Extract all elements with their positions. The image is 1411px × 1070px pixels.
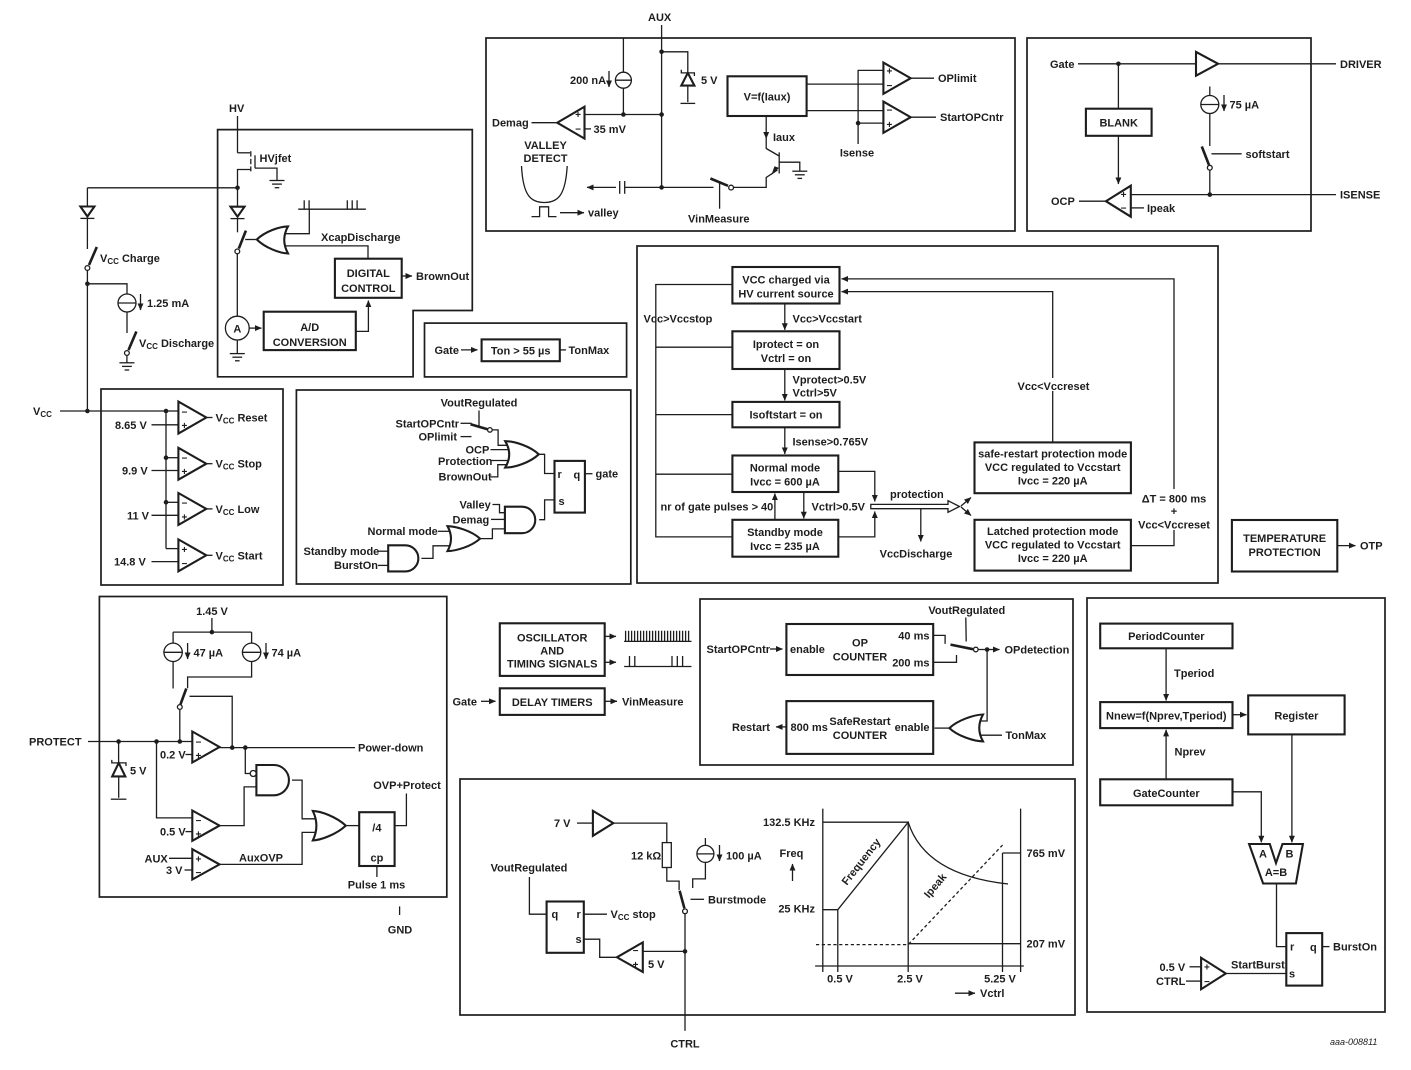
svg-text:Vctrl>5V: Vctrl>5V — [793, 388, 838, 400]
wire 200 ms contact — [933, 655, 956, 662]
wire rail stub to Isoftstart box — [656, 414, 733, 416]
box DELAY TIMERS — [500, 688, 605, 715]
ammeter A — [225, 316, 249, 340]
node junction switch pole — [178, 739, 183, 744]
svg-text:47 µA: 47 µA — [194, 647, 224, 659]
svg-text:35 mV: 35 mV — [594, 124, 627, 136]
svg-text:1.45 V: 1.45 V — [196, 606, 228, 618]
svg-text:−: − — [182, 454, 188, 465]
svg-text:11 V: 11 V — [127, 510, 150, 522]
svg-text:Normal mode: Normal mode — [368, 526, 438, 538]
svg-text:+: + — [633, 960, 639, 971]
node junction gate/blank — [1116, 62, 1121, 67]
fat arrow protection — [871, 501, 960, 513]
box Isoftstart — [732, 402, 839, 427]
comparator VCC Stop — [178, 448, 206, 480]
box Normal mode — [732, 456, 838, 493]
svg-text:Vctrl = on: Vctrl = on — [761, 353, 812, 365]
comparator AuxOVP — [192, 849, 219, 879]
wire 7V stub — [577, 822, 593, 824]
svg-text:OPdetection: OPdetection — [1005, 645, 1070, 657]
wire arrow VinMeasure out — [605, 700, 617, 702]
svg-text:Burstmode: Burstmode — [708, 894, 766, 906]
svg-text:valley: valley — [588, 208, 619, 220]
svg-text:VinMeasure: VinMeasure — [622, 696, 684, 708]
and-gate U-set — [505, 507, 535, 534]
arrow 1.25 mA direction — [140, 294, 142, 310]
flip-flop FF-burst — [1286, 933, 1322, 986]
svg-text:+: + — [196, 855, 202, 866]
svg-text:safe-restart protection mode: safe-restart protection mode — [978, 449, 1127, 461]
ground plate under zener — [111, 798, 127, 800]
wire OCP output — [1079, 200, 1106, 202]
svg-text:Gate: Gate — [1050, 59, 1074, 71]
wire 1.45V rail — [173, 631, 252, 633]
svg-text:9.9 V: 9.9 V — [122, 466, 148, 478]
switch Burstmode — [680, 891, 688, 914]
svg-text:StartOPCntr: StartOPCntr — [396, 418, 460, 430]
svg-text:132.5 KHz: 132.5 KHz — [763, 817, 815, 829]
box VCC comparators — [101, 389, 283, 585]
wire Demag to AND — [491, 518, 505, 520]
graph right axis — [1020, 809, 1022, 972]
svg-text:Register: Register — [1274, 711, 1319, 723]
wire arrow B1 to B2 — [784, 304, 786, 330]
svg-text:AUX: AUX — [648, 12, 672, 24]
svg-text:+: + — [575, 110, 581, 121]
svg-text:800 ms: 800 ms — [791, 722, 828, 734]
wire FF q to BurstOn — [1322, 946, 1329, 948]
box DIGITAL CONTROL — [335, 259, 402, 298]
svg-text:40 ms: 40 ms — [898, 630, 929, 642]
svg-text:XcapDischarge: XcapDischarge — [321, 232, 400, 244]
wire arrow comb2 — [605, 661, 616, 663]
comparator 0.5V — [192, 811, 219, 841]
svg-text:Gate: Gate — [453, 696, 477, 708]
svg-text:HV current source: HV current source — [738, 289, 833, 301]
svg-text:AND: AND — [540, 646, 564, 658]
arrow freq up — [792, 864, 794, 881]
svg-text:cp: cp — [370, 853, 383, 865]
wire BurstOn to AND2 — [378, 564, 388, 566]
wire arrow Standby to Normal — [774, 494, 776, 520]
svg-text:A: A — [233, 324, 241, 336]
svg-text:PeriodCounter: PeriodCounter — [1128, 631, 1205, 643]
box op counter block — [700, 599, 1073, 765]
svg-text:Standby mode: Standby mode — [747, 527, 823, 539]
svg-text:s: s — [1289, 969, 1295, 981]
wire StartOPCntr output — [911, 116, 936, 118]
wire AND2 to OR2 input — [421, 546, 450, 559]
wire NAND output to OR — [292, 780, 317, 819]
zener diode 5V — [681, 70, 694, 86]
svg-text:−: − — [196, 868, 202, 879]
svg-text:VCC charged via: VCC charged via — [742, 275, 830, 287]
switch VCC Charge — [85, 247, 97, 270]
svg-text:Vcc>Vccstart: Vcc>Vccstart — [793, 314, 863, 326]
svg-text:Protection: Protection — [438, 456, 493, 468]
comparator 5V vcc-stop (points left) — [617, 942, 643, 972]
wire Iaux arrow from V=f box — [765, 117, 767, 139]
wire junction down to OR3 — [980, 650, 988, 722]
ground plate under zener — [681, 102, 696, 104]
svg-text:Iprotect = on: Iprotect = on — [753, 339, 820, 351]
arrow Vctrl — [955, 992, 975, 994]
buffer U-7V — [593, 811, 613, 836]
node junction on HV source line — [235, 186, 240, 191]
wire A/D to DIGITAL CONTROL — [356, 301, 369, 332]
svg-text:5 V: 5 V — [701, 75, 718, 87]
wire gate arrow — [461, 349, 478, 351]
svg-text:StartOPCntr: StartOPCntr — [940, 112, 1004, 124]
box A/D CONVERSION — [264, 312, 356, 350]
svg-text:−: − — [575, 124, 581, 135]
svg-text:softstart: softstart — [1246, 149, 1290, 161]
wire HV down into box — [237, 116, 239, 153]
svg-text:Vcc>Vccstop: Vcc>Vccstop — [644, 314, 713, 326]
buffer U-driver — [1196, 52, 1218, 76]
box gate logic — [296, 390, 630, 584]
svg-text:Ivcc = 235 µA: Ivcc = 235 µA — [750, 541, 820, 553]
current source 100 uA — [693, 838, 714, 888]
wire Normal mode to protection arrow — [838, 471, 875, 501]
wire GND stub — [399, 906, 401, 915]
svg-text:Power-down: Power-down — [358, 743, 424, 755]
node junction on ISENSE — [1208, 192, 1213, 197]
svg-text:Nprev: Nprev — [1175, 747, 1207, 759]
wire 9.9V to comp2 — [152, 470, 179, 472]
wire PROTECT input — [88, 741, 192, 743]
label dT = 800 ms + Vcc<Vccreset — [1138, 489, 1210, 531]
comparator OPlimit — [883, 63, 910, 94]
svg-text:r: r — [577, 909, 582, 921]
box TEMPERATURE PROTECTION — [1232, 520, 1337, 572]
svg-text:8.65 V: 8.65 V — [115, 420, 147, 432]
comparator VCC Low — [178, 493, 206, 525]
curve Ipeak dashed — [816, 844, 1004, 945]
svg-text:BLANK: BLANK — [1099, 118, 1138, 130]
wire AUX vertical — [661, 25, 663, 187]
wire comp3 output — [206, 508, 212, 510]
wire 11V to comp3 — [152, 514, 179, 516]
svg-text:−: − — [1121, 203, 1127, 214]
box HV block outline — [218, 130, 473, 377]
svg-text:q: q — [552, 909, 559, 921]
svg-text:COUNTER: COUNTER — [833, 652, 887, 664]
svg-text:VoutRegulated: VoutRegulated — [928, 605, 1005, 617]
wire gate to buffer — [1078, 63, 1196, 65]
wire Isense stub down — [857, 123, 859, 144]
box VCC charged via HV current source — [732, 267, 839, 304]
box Standby mode — [732, 520, 838, 557]
svg-text:enable: enable — [790, 644, 825, 656]
ground under VCC Discharge — [119, 363, 134, 370]
wire Demag + input rail — [585, 114, 662, 116]
capacitor C1 — [620, 181, 662, 194]
svg-text:200 ms: 200 ms — [892, 657, 929, 669]
svg-text:Freq: Freq — [780, 848, 804, 860]
svg-text:VCC Start: VCC Start — [216, 550, 263, 563]
svg-text:HVjfet: HVjfet — [260, 153, 292, 165]
svg-text:nr of gate pulses > 40: nr of gate pulses > 40 — [661, 502, 774, 514]
pulse symbol valley — [532, 207, 557, 217]
node junction bus comp3 — [164, 500, 169, 505]
svg-text:25 KHz: 25 KHz — [778, 903, 815, 915]
waveform comb pulses — [298, 200, 366, 209]
and-gate U-standby — [388, 545, 418, 571]
svg-text:−: − — [182, 559, 188, 570]
svg-text:BurstOn: BurstOn — [334, 560, 378, 572]
svg-text:VCC Stop: VCC Stop — [216, 459, 263, 472]
svg-text:VinMeasure: VinMeasure — [688, 214, 750, 226]
wire bus to comp2 minus — [166, 457, 178, 459]
graph hline 207mV — [908, 943, 1020, 945]
wire VCC bus vertical — [165, 411, 167, 549]
wire Demag output — [532, 122, 558, 124]
waveform sparse pulses — [624, 656, 691, 667]
wire left branch down to diode — [86, 188, 88, 207]
svg-text:OVP+Protect: OVP+Protect — [373, 780, 441, 792]
wire 0.5V comp output to NAND — [220, 787, 257, 826]
svg-text:+: + — [196, 751, 202, 762]
transistor Q1 — [766, 149, 800, 176]
svg-text:Nnew=f(Nprev,Tperiod): Nnew=f(Nprev,Tperiod) — [1106, 710, 1227, 722]
wire BrownOut to OR — [491, 465, 509, 477]
comparator VCC Start — [178, 539, 206, 571]
svg-text:Isense>0.765V: Isense>0.765V — [793, 437, 869, 449]
svg-text:ΔT = 800 ms: ΔT = 800 ms — [1142, 494, 1206, 506]
switch VCC Discharge — [125, 332, 137, 356]
svg-text:VCC Low: VCC Low — [216, 504, 260, 517]
wire OR to FF r — [539, 454, 555, 473]
svg-text:+: + — [182, 467, 188, 478]
wire horizontal rail y=187.8 — [87, 187, 237, 189]
box Ton > 55 us — [482, 339, 560, 361]
wire to zener — [662, 52, 688, 73]
svg-text:r: r — [558, 469, 563, 481]
comparator Demag (points left) — [557, 107, 584, 139]
box BLANK — [1086, 109, 1152, 136]
svg-text:OCP: OCP — [1051, 196, 1075, 208]
wire OVP+Protect output — [395, 794, 407, 826]
wire 0.5V stub — [186, 831, 193, 833]
svg-text:Valley: Valley — [460, 499, 492, 511]
svg-text:−: − — [633, 946, 639, 957]
svg-text:Ton > 55 µs: Ton > 55 µs — [491, 345, 551, 357]
box OP COUNTER — [786, 624, 933, 675]
node junction bus comp2 — [164, 455, 169, 460]
node junction NAND branch — [243, 745, 248, 750]
svg-text:Gate: Gate — [435, 345, 459, 357]
svg-text:COUNTER: COUNTER — [833, 730, 887, 742]
wire 74uA to switch contact — [188, 662, 252, 689]
svg-text:DIGITAL: DIGITAL — [347, 268, 390, 280]
wire switch to ISENSE line — [1209, 170, 1211, 195]
svg-text:5.25 V: 5.25 V — [984, 974, 1016, 986]
svg-text:−: − — [887, 81, 893, 92]
svg-text:+: + — [196, 829, 202, 840]
svg-text:Tperiod: Tperiod — [1174, 668, 1214, 680]
wire diode to switch — [86, 218, 88, 249]
svg-text:0.2 V: 0.2 V — [160, 750, 186, 762]
svg-text:+: + — [182, 512, 188, 523]
wire OCP to OR — [491, 449, 510, 451]
node junction bus top — [164, 409, 169, 414]
wire diode to switch contact — [237, 219, 239, 233]
arrow 200 nA direction — [608, 71, 610, 87]
wire 40 ms contact — [933, 635, 945, 644]
wire zener branch down — [118, 742, 120, 763]
box AUX block — [486, 38, 1015, 231]
svg-text:VoutRegulated: VoutRegulated — [491, 863, 568, 875]
switch VinMeasure — [710, 179, 733, 209]
svg-text:−: − — [887, 106, 893, 117]
svg-text:VCC regulated to Vccstart: VCC regulated to Vccstart — [985, 462, 1121, 474]
svg-text:OPlimit: OPlimit — [938, 73, 977, 85]
wire 8.65V to comp1 — [152, 424, 179, 426]
svg-text:+: + — [182, 421, 188, 432]
svg-text:Vprotect>0.5V: Vprotect>0.5V — [793, 375, 867, 387]
svg-text:VCC stop: VCC stop — [611, 909, 656, 922]
svg-text:ISENSE: ISENSE — [1340, 190, 1380, 202]
svg-text:+: + — [1204, 963, 1210, 974]
wire OPlimit output — [911, 77, 934, 79]
wire latched return rail — [842, 279, 1175, 546]
wire CTRL stub — [1186, 980, 1201, 982]
wire left return rail — [656, 285, 733, 537]
wire 35 mV stub — [585, 128, 592, 130]
svg-text:OPlimit: OPlimit — [419, 432, 458, 444]
svg-text:OCP: OCP — [466, 444, 490, 456]
switch hysteresis — [177, 689, 186, 710]
svg-text:Ivcc = 600 µA: Ivcc = 600 µA — [750, 477, 820, 489]
or-gate U-xcap pointing left — [257, 226, 288, 253]
wire safe-restart up rail — [842, 292, 1053, 443]
wire switch pole down — [179, 709, 181, 741]
wire OR to /4 box — [346, 825, 359, 827]
svg-text:q: q — [574, 470, 581, 482]
svg-text:Isense: Isense — [840, 147, 874, 159]
arrow 47 uA direction — [187, 643, 189, 659]
svg-text:Normal mode: Normal mode — [750, 463, 820, 475]
svg-text:DRIVER: DRIVER — [1340, 59, 1382, 71]
svg-text:Ivcc = 220 µA: Ivcc = 220 µA — [1018, 553, 1088, 565]
graph bottom axis — [815, 965, 1024, 967]
svg-text:s: s — [559, 496, 565, 508]
box ctrl block — [460, 779, 1075, 1015]
svg-text:BrownOut: BrownOut — [416, 271, 469, 283]
current source 1.25 mA — [118, 294, 136, 312]
svg-text:A: A — [1259, 849, 1267, 861]
wire OPlimit stub — [461, 436, 472, 438]
svg-text:VccDischarge: VccDischarge — [880, 549, 953, 561]
box Latched protection mode — [975, 520, 1131, 571]
wire AND to FF s — [539, 500, 554, 520]
or-gate U-reset — [505, 441, 539, 467]
wire gate junction to BLANK — [1117, 64, 1119, 109]
wire fork to latched — [961, 507, 971, 516]
wire switch down to VCC rail — [86, 270, 88, 411]
comparator OCP (points left) — [1106, 186, 1131, 217]
svg-text:3 V: 3 V — [166, 865, 183, 877]
diode D2 — [231, 207, 245, 219]
wire Ipeak stub — [1131, 207, 1144, 209]
svg-text:PROTECT: PROTECT — [29, 737, 82, 749]
wire switch control from comparator output — [190, 696, 233, 747]
svg-text:OTP: OTP — [1360, 541, 1383, 553]
wire switch to ammeter — [236, 254, 238, 316]
wire 0.5V branch — [157, 742, 193, 818]
wire arrow Restart — [776, 726, 786, 728]
switch XcapDischarge — [235, 231, 246, 254]
svg-text:Vcc<Vccreset: Vcc<Vccreset — [1018, 381, 1090, 393]
wire gate arrow to delay timers — [481, 700, 496, 702]
switch OP detection select — [951, 645, 979, 652]
wire arrow Tperiod — [1165, 648, 1167, 700]
wire buffer to DRIVER pin — [1218, 63, 1336, 65]
wire VoutRegulated control — [478, 411, 480, 427]
svg-text:gate: gate — [596, 469, 619, 481]
svg-text:SafeRestart: SafeRestart — [829, 716, 890, 728]
wire source to switch — [126, 312, 128, 333]
box Register — [1248, 695, 1344, 734]
svg-text:GateCounter: GateCounter — [1133, 788, 1200, 800]
box state machine — [637, 246, 1218, 583]
svg-text:200 nA: 200 nA — [570, 75, 606, 87]
arrow to valley label — [560, 212, 584, 214]
label Vcc<Vccreset (on rail) — [1014, 378, 1092, 393]
wire switch to transistor emitter — [734, 170, 778, 187]
wire BrownOut output arrow — [402, 275, 412, 277]
wire Standby to AND2 — [378, 550, 388, 552]
svg-text:Restart: Restart — [732, 722, 770, 734]
wire arrow Nnew to Register — [1233, 714, 1247, 716]
current source 74 uA — [242, 632, 260, 661]
node junction AUX on rail — [659, 112, 664, 117]
or-gate U-mode — [448, 526, 481, 551]
wire StartBurst to FF s — [1226, 973, 1287, 975]
svg-text:PROTECTION: PROTECTION — [1249, 547, 1321, 559]
wire Protection to OR — [491, 460, 510, 462]
wire bus to comp4 plus — [166, 548, 178, 550]
wire arrow GateCounter to A — [1233, 792, 1262, 843]
arrow 75 uA direction — [1223, 95, 1225, 111]
wire Normal mode to OR2 — [438, 530, 451, 532]
wire rail stub to Normal mode box — [656, 473, 733, 475]
or-gate U-restart (points left) — [949, 715, 983, 742]
node junction 200nA on rail — [621, 112, 626, 117]
wire softstart stub — [1212, 153, 1242, 155]
svg-text:BrownOut: BrownOut — [439, 472, 492, 484]
wire NAND bubble branch — [245, 748, 250, 774]
svg-text:7 V: 7 V — [554, 818, 571, 830]
svg-text:14.8 V: 14.8 V — [114, 557, 146, 569]
svg-text:Vctrl>0.5V: Vctrl>0.5V — [812, 502, 866, 514]
svg-text:TonMax: TonMax — [1006, 730, 1048, 742]
wire bus to comp3 minus — [166, 501, 178, 503]
wire VoutRegulated control line — [965, 618, 967, 642]
ground under ammeter — [230, 354, 245, 361]
zener diode 5V protect — [112, 760, 126, 798]
graph vline 2.5V — [907, 822, 909, 972]
wire 0.2V output to Power-down — [220, 747, 356, 749]
arrow VinMeasure line left — [587, 186, 616, 188]
comparator A=B funnel — [1249, 844, 1303, 884]
svg-text:0.5 V: 0.5 V — [160, 827, 186, 839]
wire arrow B2 to B3 — [784, 369, 786, 400]
wire junction to 5V comp minus — [643, 950, 685, 952]
svg-text:207 mV: 207 mV — [1027, 939, 1066, 951]
